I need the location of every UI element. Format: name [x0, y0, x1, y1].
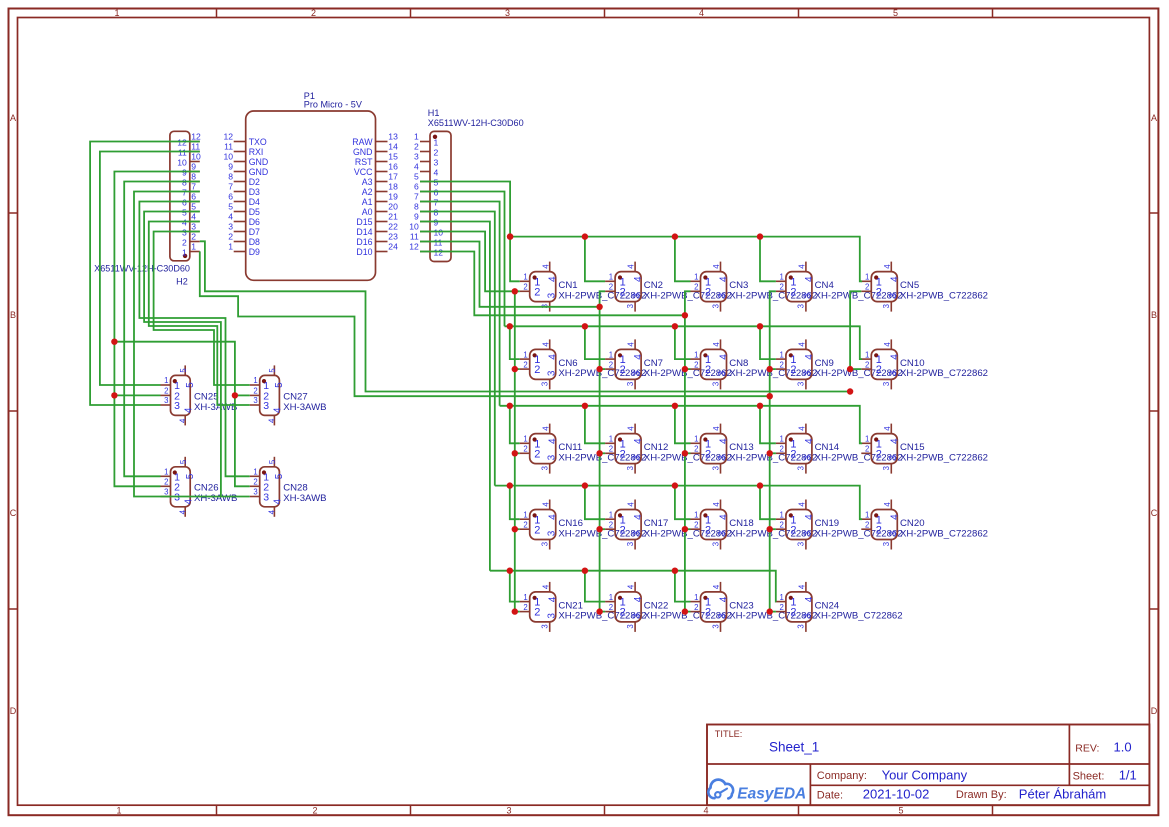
CN1 pin 3 (bottom) [541, 292, 558, 311]
svg-text:4: 4 [179, 509, 188, 514]
H2 pin 12 [177, 132, 201, 148]
svg-text:XH-3AWB: XH-3AWB [283, 402, 326, 413]
svg-text:20: 20 [388, 202, 398, 212]
svg-text:2: 2 [182, 237, 187, 247]
CN20 pin 4 (top) [883, 500, 900, 520]
CN17 pin 1 [605, 510, 626, 526]
junction [507, 482, 513, 488]
CN16 pin 4 (top) [541, 500, 558, 520]
svg-text:11: 11 [410, 232, 419, 242]
junction [582, 482, 588, 488]
svg-text:1: 1 [609, 273, 613, 282]
svg-text:15: 15 [388, 152, 398, 162]
H2 pin 10 [177, 152, 201, 168]
svg-text:1: 1 [253, 468, 257, 477]
svg-text:RAW: RAW [352, 137, 373, 147]
CN18 pin 1 [691, 510, 712, 526]
CN6 body [530, 349, 556, 379]
CN27 pin 3 [250, 396, 270, 412]
svg-text:1: 1 [865, 435, 869, 444]
svg-text:CN27: CN27 [283, 392, 308, 403]
svg-text:A3: A3 [362, 177, 373, 187]
CN20 pin 3 (bottom) [882, 530, 899, 549]
junction [507, 233, 513, 239]
CN10 body [871, 349, 897, 379]
svg-text:3: 3 [164, 396, 168, 405]
svg-text:4: 4 [883, 426, 892, 431]
svg-text:4: 4 [798, 342, 807, 347]
connector CN27 XH-3AWB [250, 365, 327, 425]
svg-text:3: 3 [541, 542, 550, 546]
svg-text:10: 10 [177, 157, 187, 167]
H1 body [430, 131, 451, 261]
junction [767, 366, 773, 372]
svg-text:14: 14 [388, 142, 398, 152]
CN12 body [615, 434, 641, 464]
connector CN12 XH-2PWB [605, 424, 732, 474]
wire H2 pin 1 to COL4 net [200, 251, 770, 396]
svg-text:3: 3 [505, 8, 510, 18]
H1 pin 7 [414, 192, 438, 208]
H1 pin 1 [414, 132, 438, 148]
connector CN6 XH-2PWB [520, 339, 647, 389]
wire COL3 jog to CN pin2 row3 [685, 452, 691, 454]
CN16 pin 1 [520, 510, 541, 526]
connector CN11 XH-2PWB [520, 424, 647, 474]
svg-text:7: 7 [228, 182, 233, 192]
svg-text:1: 1 [523, 510, 527, 519]
CN26 pin 5 (top) [179, 457, 196, 479]
wire GND branch east [114, 342, 249, 487]
svg-text:4: 4 [633, 354, 644, 360]
svg-text:D8: D8 [249, 237, 260, 247]
CN26 pin 2 [161, 478, 181, 494]
svg-text:3: 3 [546, 530, 557, 536]
wire ROW2 bus [505, 326, 863, 359]
svg-text:3: 3 [626, 466, 635, 470]
svg-text:8: 8 [414, 202, 419, 212]
svg-text:4: 4 [548, 354, 559, 360]
svg-text:C: C [10, 508, 17, 518]
svg-text:2: 2 [534, 286, 540, 298]
svg-text:1/1: 1/1 [1119, 767, 1137, 782]
svg-text:1: 1 [694, 273, 698, 282]
svg-text:CN16: CN16 [558, 518, 583, 529]
svg-text:5: 5 [268, 459, 277, 464]
svg-text:2: 2 [609, 520, 613, 529]
svg-text:3: 3 [803, 370, 814, 376]
junction [672, 568, 678, 574]
P1 pin 21 (D15) [356, 212, 398, 227]
svg-text:17: 17 [388, 172, 398, 182]
wire GND spur to CN27 pin 2 [235, 394, 250, 396]
wire ROW5 drop to CN pin1 col3 [675, 571, 691, 602]
CN12 pin 2 [605, 445, 626, 461]
CN1 pin 1 [520, 273, 541, 289]
H2 body [170, 131, 190, 260]
svg-text:10: 10 [223, 152, 233, 162]
CN15 pin 2 [861, 445, 882, 461]
wire ROW3 drop to CN pin1 col3 [675, 406, 691, 444]
CN7 pin 4 (top) [627, 339, 644, 359]
svg-text:4: 4 [183, 498, 194, 504]
CN18 body [701, 510, 727, 540]
svg-text:3: 3 [711, 466, 720, 470]
svg-text:1: 1 [523, 273, 527, 282]
svg-text:4: 4 [228, 212, 233, 222]
svg-text:D16: D16 [356, 237, 372, 247]
svg-text:2: 2 [312, 806, 317, 816]
svg-text:7: 7 [191, 182, 196, 192]
CN23 pin 3 (bottom) [711, 613, 728, 632]
H1 pin 1 marker [433, 135, 437, 139]
svg-text:CN8: CN8 [729, 358, 748, 369]
svg-text:2: 2 [705, 286, 711, 298]
CN10 pin 3 (bottom) [882, 370, 899, 389]
CN16 pin 3 (bottom) [541, 530, 558, 549]
CN13 pin 3 (bottom) [711, 454, 728, 473]
CN27 pin 1 marker [262, 379, 266, 383]
svg-text:2: 2 [228, 232, 233, 242]
CN11 pin 2 [520, 445, 541, 461]
CN4 pin 3 (bottom) [797, 292, 814, 311]
svg-text:4: 4 [548, 514, 559, 520]
svg-text:Pro Micro - 5V: Pro Micro - 5V [304, 100, 363, 110]
H1 pin 12 [409, 242, 443, 258]
P1 pin 14 (GND) [353, 142, 398, 157]
svg-text:CN23: CN23 [729, 600, 754, 611]
svg-text:3: 3 [546, 292, 557, 298]
wire COL1 jog to CN pin2 row4 [515, 528, 520, 530]
svg-text:3: 3 [803, 530, 814, 536]
svg-text:2: 2 [534, 448, 540, 460]
H1 pin 2 [414, 142, 438, 158]
svg-text:1: 1 [694, 510, 698, 519]
CN25 pin 2 [161, 387, 181, 403]
H1 pin 10 [409, 222, 443, 238]
svg-text:3: 3 [882, 304, 891, 308]
svg-text:A0: A0 [362, 207, 373, 217]
svg-text:XH-2PWB_C722862: XH-2PWB_C722862 [900, 452, 988, 463]
wire COL2 jog to CN pin2 row4 [600, 528, 606, 530]
svg-text:2: 2 [876, 448, 882, 460]
junction [682, 608, 688, 614]
svg-text:4: 4 [712, 264, 721, 269]
CN21 pin 2 [520, 603, 541, 619]
svg-text:16: 16 [388, 162, 398, 172]
svg-text:23: 23 [388, 232, 398, 242]
svg-text:D: D [10, 706, 17, 716]
svg-text:2: 2 [191, 232, 196, 242]
svg-text:3: 3 [632, 370, 643, 376]
P1 pin 16 (VCC) [354, 162, 398, 177]
CN2 pin 1 marker [618, 275, 622, 279]
svg-text:2: 2 [620, 286, 626, 298]
svg-text:4: 4 [183, 407, 194, 413]
wire COL1 jog to CN pin2 row5 [515, 611, 520, 613]
connector CN22 XH-2PWB [605, 582, 732, 632]
svg-text:2: 2 [790, 448, 796, 460]
CN14 pin 3 (bottom) [797, 454, 814, 473]
H1 pin 4 [414, 162, 438, 178]
junction [672, 323, 678, 329]
CN13 pin 1 [691, 435, 712, 451]
CN4 pin 2 [776, 283, 797, 299]
svg-text:5: 5 [274, 473, 285, 479]
P1 pin 24 (D10) [356, 242, 398, 257]
svg-text:2: 2 [620, 448, 626, 460]
P1 pin 22 (D14) [356, 222, 398, 237]
svg-text:1: 1 [523, 435, 527, 444]
wire H2 pin 2 to COL5 net [200, 241, 850, 391]
H1 pin 8 [414, 202, 438, 218]
svg-text:1: 1 [228, 242, 233, 252]
CN15 pin 1 [861, 435, 882, 451]
H2 pin 6 [182, 192, 200, 208]
P1 pin 19 (A1) [362, 192, 398, 207]
CN4 pin 1 marker [789, 275, 793, 279]
svg-text:3: 3 [541, 624, 550, 628]
svg-text:X6511WV-12H-C30D60: X6511WV-12H-C30D60 [94, 264, 190, 274]
H2 pin 1 [182, 242, 200, 258]
svg-text:2: 2 [780, 360, 784, 369]
svg-text:1: 1 [609, 510, 613, 519]
CN1 body [530, 272, 556, 302]
svg-text:TITLE:: TITLE: [715, 729, 743, 739]
P1 pin 13 (RAW) [352, 132, 398, 147]
CN4 pin 4 (top) [798, 262, 815, 282]
svg-text:4: 4 [179, 418, 188, 423]
svg-text:H2: H2 [176, 276, 188, 286]
svg-text:XH-3AWB: XH-3AWB [283, 493, 326, 504]
svg-text:1: 1 [865, 350, 869, 359]
svg-text:4: 4 [798, 584, 807, 589]
junction [507, 403, 513, 409]
svg-text:4: 4 [541, 502, 550, 507]
junction [507, 323, 513, 329]
svg-text:3: 3 [626, 382, 635, 386]
svg-text:4: 4 [719, 514, 730, 520]
junction [596, 450, 602, 456]
IC P1 Pro Micro - 5V [223, 91, 398, 280]
svg-text:2: 2 [414, 142, 419, 152]
svg-text:2: 2 [609, 360, 613, 369]
CN14 pin 1 marker [789, 437, 793, 441]
CN27 pin 4 (bottom) [268, 407, 284, 425]
CN27 body [260, 375, 280, 415]
CN3 pin 2 [691, 283, 712, 299]
svg-text:D5: D5 [249, 207, 260, 217]
svg-text:2: 2 [876, 524, 882, 536]
svg-text:4: 4 [191, 212, 196, 222]
junction [757, 403, 763, 409]
svg-text:3: 3 [711, 542, 720, 546]
CN28 body [260, 467, 280, 507]
svg-text:3: 3 [882, 466, 891, 470]
svg-text:3: 3 [174, 400, 180, 412]
svg-text:Péter Ábrahám: Péter Ábrahám [1019, 787, 1106, 802]
svg-text:XH-2PWB_C722862: XH-2PWB_C722862 [900, 290, 988, 301]
CN10 pin 1 [861, 350, 882, 366]
wire ROW5 drop to CN pin1 col2 [585, 571, 605, 602]
svg-text:2: 2 [876, 364, 882, 376]
CN12 pin 3 (bottom) [626, 454, 643, 473]
svg-text:4: 4 [273, 498, 284, 504]
P1 pin 2 (D8) [228, 232, 260, 247]
svg-text:CN18: CN18 [729, 518, 754, 529]
wire H2 pin 11 to CN25 pin 1 [100, 152, 200, 386]
CN18 pin 1 marker [703, 513, 707, 517]
svg-text:CN15: CN15 [900, 442, 925, 453]
svg-text:D10: D10 [356, 247, 372, 257]
CN17 pin 2 [605, 520, 626, 536]
svg-text:21: 21 [388, 212, 398, 222]
wire ROW1 drop to CN pin1 col3 [675, 237, 691, 282]
CN6 pin 2 [520, 360, 541, 376]
svg-text:1: 1 [434, 137, 439, 147]
svg-text:6: 6 [414, 182, 419, 192]
CN6 pin 3 (bottom) [541, 370, 558, 389]
junction [512, 450, 518, 456]
CN5 pin 2 [861, 283, 882, 299]
svg-text:3: 3 [717, 292, 728, 298]
junction [682, 450, 688, 456]
wire H1 pin 6 to ROW2 bus [420, 192, 505, 327]
CN11 pin 3 (bottom) [541, 454, 558, 473]
svg-text:4: 4 [719, 596, 730, 602]
svg-text:2: 2 [534, 607, 540, 619]
svg-text:4: 4 [719, 438, 730, 444]
CN9 pin 1 marker [789, 353, 793, 357]
svg-text:8: 8 [191, 172, 196, 182]
svg-text:A2: A2 [362, 187, 373, 197]
svg-text:XH-2PWB_C722862: XH-2PWB_C722862 [900, 528, 988, 539]
svg-text:4: 4 [798, 502, 807, 507]
CN17 body [615, 510, 641, 540]
wire COL4 jog to CN pin2 row4 [770, 528, 776, 530]
connector CN19 XH-2PWB [776, 500, 903, 550]
junction [582, 323, 588, 329]
svg-text:4: 4 [889, 276, 900, 282]
svg-text:1: 1 [780, 593, 784, 602]
svg-text:1: 1 [780, 435, 784, 444]
svg-text:GND: GND [249, 167, 269, 177]
svg-text:4: 4 [268, 509, 277, 514]
H2 pin 8 [182, 172, 200, 188]
svg-text:3: 3 [506, 806, 511, 816]
svg-text:4: 4 [889, 514, 900, 520]
junction [767, 526, 773, 532]
connector CN21 XH-2PWB [520, 582, 647, 632]
wire ROW4 drop to CN pin1 col1 [510, 486, 520, 520]
connector CN4 XH-2PWB [776, 262, 903, 312]
svg-text:9: 9 [414, 212, 419, 222]
CN5 pin 4 (top) [883, 262, 900, 282]
svg-text:D15: D15 [356, 217, 372, 227]
CN26 pin 4 (bottom) [179, 498, 195, 516]
wire COL1 jog to CN pin2 row2 [515, 368, 520, 370]
CN7 pin 1 [605, 350, 626, 366]
wire ROW4 bus [495, 486, 862, 520]
CN19 body [786, 510, 812, 540]
CN26 body [171, 467, 191, 507]
svg-text:3: 3 [797, 466, 806, 470]
svg-text:2: 2 [694, 283, 698, 292]
svg-text:2: 2 [790, 524, 796, 536]
svg-text:2: 2 [705, 448, 711, 460]
svg-text:3: 3 [882, 382, 891, 386]
CN7 body [615, 349, 641, 379]
svg-text:4: 4 [719, 276, 730, 282]
CN3 body [701, 272, 727, 302]
svg-text:Sheet_1: Sheet_1 [769, 740, 819, 755]
wire COL2 vertical [600, 291, 606, 611]
svg-text:3: 3 [414, 152, 419, 162]
CN8 pin 3 (bottom) [711, 370, 728, 389]
CN17 pin 4 (top) [627, 500, 644, 520]
svg-text:B: B [1151, 310, 1157, 320]
svg-text:3: 3 [717, 530, 728, 536]
wire H2 pin 3 to CN27 pin 1 [154, 232, 250, 386]
svg-text:11: 11 [191, 142, 200, 152]
junction [672, 233, 678, 239]
H2 pin 3 [182, 222, 200, 238]
svg-text:A1: A1 [362, 197, 373, 207]
P1 pin 3 (D7) [228, 222, 260, 237]
CN15 pin 1 marker [874, 437, 878, 441]
wire COL3 jog to CN pin2 row4 [685, 528, 691, 530]
svg-text:2: 2 [620, 364, 626, 376]
svg-text:2: 2 [865, 283, 869, 292]
wire ROW4 drop to CN pin1 col4 [760, 486, 776, 520]
connector H2 X6511WV-12H-C30D60 [94, 131, 201, 286]
svg-text:5: 5 [179, 368, 188, 373]
svg-text:2: 2 [780, 283, 784, 292]
wire H1 pin 8 to ROW4 bus [420, 212, 495, 486]
svg-text:RXI: RXI [249, 147, 264, 157]
CN13 body [701, 434, 727, 464]
wire COL5 jog to CN pin2 row2 [850, 368, 861, 370]
svg-text:4: 4 [273, 407, 284, 413]
svg-text:4: 4 [804, 354, 815, 360]
CN3 pin 1 [691, 273, 712, 289]
CN22 pin 1 [605, 593, 626, 609]
CN1 pin 4 (top) [541, 262, 558, 282]
svg-text:3: 3 [174, 492, 180, 504]
CN7 pin 3 (bottom) [626, 370, 643, 389]
wire H2 pin 4 to CN27 pin 3 [149, 222, 250, 406]
svg-text:1.0: 1.0 [1114, 739, 1132, 754]
svg-text:3: 3 [546, 370, 557, 376]
CN18 pin 3 (bottom) [711, 530, 728, 549]
svg-text:3: 3 [253, 488, 257, 497]
svg-text:3: 3 [434, 157, 439, 167]
svg-text:Sheet:: Sheet: [1073, 771, 1105, 783]
connector CN18 XH-2PWB [691, 500, 818, 550]
svg-text:D7: D7 [249, 227, 260, 237]
svg-text:2: 2 [523, 603, 527, 612]
CN5 pin 1 [861, 273, 882, 289]
junction [111, 392, 117, 398]
svg-text:3: 3 [164, 488, 168, 497]
CN23 body [701, 592, 727, 622]
svg-text:Date:: Date: [817, 789, 843, 801]
svg-text:9: 9 [191, 162, 196, 172]
svg-text:4: 4 [268, 418, 277, 423]
svg-text:Company:: Company: [817, 770, 867, 782]
wire ROW1 bus [510, 237, 862, 282]
CN23 pin 1 [691, 593, 712, 609]
